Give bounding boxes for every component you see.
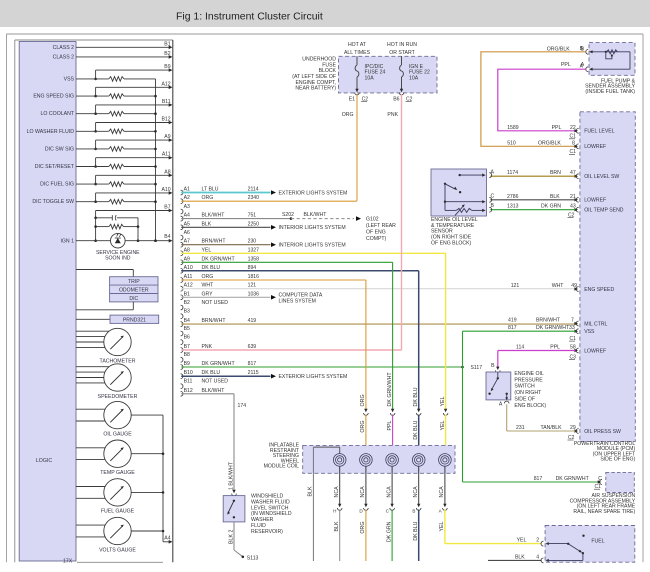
svg-text:A7: A7: [184, 239, 190, 245]
svg-text:7: 7: [571, 318, 574, 324]
svg-text:17X: 17X: [63, 558, 73, 564]
svg-text:ORG: ORG: [342, 112, 354, 118]
svg-text:DIC SW SIG: DIC SW SIG: [45, 146, 74, 152]
svg-text:DIC TOGGLE SW: DIC TOGGLE SW: [32, 199, 74, 205]
svg-text:NCA: NCA: [360, 486, 366, 498]
svg-text:PRESSURE: PRESSURE: [514, 377, 543, 383]
svg-text:NEAR BATTERY): NEAR BATTERY): [295, 86, 336, 92]
svg-text:SIDE OF ENG): SIDE OF ENG): [600, 457, 635, 463]
svg-text:OF ENG: OF ENG: [366, 229, 386, 235]
svg-text:DIC SET/RESET: DIC SET/RESET: [35, 164, 75, 170]
svg-text:DK BLU: DK BLU: [202, 265, 221, 271]
svg-text:A8: A8: [184, 247, 190, 253]
svg-text:1 BLK/WHT: 1 BLK/WHT: [229, 461, 235, 490]
svg-text:BLK 2: BLK 2: [229, 530, 235, 544]
svg-text:DK GRN/WHT: DK GRN/WHT: [536, 325, 570, 331]
svg-text:BLK/WHT: BLK/WHT: [202, 213, 226, 219]
svg-text:Fig 1: Instrument Cluster Circ: Fig 1: Instrument Cluster Circuit: [176, 12, 323, 23]
svg-text:BLK/WHT: BLK/WHT: [202, 388, 226, 394]
svg-text:PRND321: PRND321: [123, 318, 146, 324]
svg-text:PNK: PNK: [202, 344, 213, 350]
svg-text:B10: B10: [184, 370, 193, 376]
svg-text:817: 817: [534, 476, 543, 482]
svg-text:BRN/WHT: BRN/WHT: [536, 318, 561, 324]
svg-text:TAN/BLK: TAN/BLK: [541, 425, 563, 431]
svg-text:YEL: YEL: [440, 396, 446, 406]
svg-text:B2: B2: [184, 300, 190, 306]
svg-text:1313: 1313: [507, 204, 519, 210]
svg-text:BRN/WHT: BRN/WHT: [202, 239, 227, 245]
svg-text:OF ENG BLOCK): OF ENG BLOCK): [431, 240, 472, 246]
svg-text:2250: 2250: [248, 221, 260, 227]
svg-text:114: 114: [516, 345, 524, 351]
svg-text:DK GRN: DK GRN: [541, 204, 561, 210]
svg-text:NOT USED: NOT USED: [202, 300, 229, 306]
svg-text:4: 4: [536, 554, 539, 560]
svg-text:B: B: [412, 508, 415, 513]
svg-text:(INSIDE FUEL TANK): (INSIDE FUEL TANK): [585, 89, 635, 95]
svg-text:ORG: ORG: [202, 195, 214, 201]
svg-text:PPL: PPL: [552, 125, 562, 131]
svg-text:VOLTS GAUGE: VOLTS GAUGE: [99, 547, 136, 553]
svg-text:DK BLU: DK BLU: [202, 370, 221, 376]
svg-text:DIC: DIC: [129, 296, 138, 302]
svg-text:YEL: YEL: [517, 538, 527, 544]
svg-text:DK BLU: DK BLU: [413, 387, 419, 406]
svg-text:22: 22: [570, 125, 576, 131]
svg-text:B4: B4: [164, 234, 170, 240]
svg-text:BLK: BLK: [515, 554, 525, 560]
svg-text:IGN 1: IGN 1: [60, 239, 74, 245]
svg-text:(LEFT REAR: (LEFT REAR: [366, 223, 396, 229]
svg-text:B8: B8: [184, 352, 190, 358]
svg-text:A6: A6: [184, 230, 190, 236]
svg-text:VSS: VSS: [64, 76, 75, 82]
svg-text:FUEL: FUEL: [591, 539, 604, 545]
svg-text:817: 817: [248, 361, 257, 367]
svg-text:ALL TIMES: ALL TIMES: [344, 50, 371, 56]
svg-text:BLK: BLK: [550, 194, 560, 200]
svg-text:ORG/BLK: ORG/BLK: [538, 140, 561, 146]
svg-text:2115: 2115: [248, 370, 259, 376]
svg-text:ENG SPEED SIG: ENG SPEED SIG: [33, 94, 74, 100]
svg-text:LO WASHER FLUID: LO WASHER FLUID: [27, 129, 75, 135]
svg-text:MIL CTRL: MIL CTRL: [584, 321, 607, 327]
svg-text:BRN/WHT: BRN/WHT: [202, 318, 227, 324]
svg-text:BLK/WHT: BLK/WHT: [304, 212, 328, 218]
svg-text:29: 29: [570, 425, 576, 431]
svg-text:E1: E1: [349, 97, 355, 103]
svg-text:2: 2: [536, 538, 539, 544]
svg-text:751: 751: [248, 213, 257, 219]
svg-text:A11: A11: [184, 274, 193, 280]
svg-text:B: B: [491, 363, 495, 369]
svg-text:LT BLU: LT BLU: [202, 187, 219, 193]
svg-text:8: 8: [572, 140, 575, 146]
svg-text:DK GRN/WHT: DK GRN/WHT: [556, 476, 590, 482]
svg-text:894: 894: [248, 265, 257, 271]
svg-text:B6: B6: [184, 335, 190, 341]
svg-text:NCA: NCA: [413, 486, 419, 498]
svg-text:OIL GAUGE: OIL GAUGE: [103, 431, 132, 437]
svg-text:121: 121: [248, 283, 257, 289]
svg-text:817: 817: [508, 325, 517, 331]
svg-text:SWITCH: SWITCH: [514, 384, 535, 390]
svg-text:SIDE OF: SIDE OF: [514, 397, 535, 403]
svg-text:COMPT): COMPT): [366, 236, 387, 242]
svg-text:S117: S117: [471, 365, 483, 371]
svg-text:1036: 1036: [248, 291, 260, 297]
svg-text:49: 49: [571, 283, 577, 289]
svg-text:NOT USED: NOT USED: [202, 379, 229, 385]
svg-text:B5: B5: [184, 326, 190, 332]
svg-text:RESERVOIR): RESERVOIR): [251, 529, 283, 535]
svg-text:2340: 2340: [248, 195, 260, 201]
svg-text:INTERIOR LIGHTS SYSTEM: INTERIOR LIGHTS SYSTEM: [279, 243, 346, 249]
svg-text:1589: 1589: [507, 125, 519, 131]
svg-text:S113: S113: [247, 555, 259, 561]
svg-text:B11: B11: [184, 379, 193, 385]
svg-text:DK GRN/WHT: DK GRN/WHT: [202, 361, 236, 367]
svg-text:ENG SPEED: ENG SPEED: [584, 287, 614, 293]
svg-text:BRN: BRN: [550, 170, 561, 176]
svg-text:LOWREF: LOWREF: [584, 348, 606, 354]
svg-text:WHT: WHT: [552, 283, 565, 289]
svg-text:A2: A2: [184, 195, 190, 201]
svg-text:ORG: ORG: [360, 394, 366, 406]
svg-text:B12: B12: [184, 388, 193, 394]
svg-text:33: 33: [569, 325, 575, 331]
svg-text:NCA: NCA: [334, 486, 340, 498]
svg-text:47: 47: [570, 170, 576, 176]
svg-text:NCA: NCA: [439, 486, 445, 498]
svg-text:ENGINE OIL: ENGINE OIL: [514, 371, 544, 377]
svg-text:1358: 1358: [248, 256, 260, 262]
svg-text:H: H: [333, 508, 336, 513]
svg-text:B2: B2: [164, 51, 170, 57]
svg-text:PPL: PPL: [561, 62, 571, 68]
svg-text:INTERIOR LIGHTS SYSTEM: INTERIOR LIGHTS SYSTEM: [279, 225, 346, 231]
svg-text:1816: 1816: [248, 274, 260, 280]
svg-text:10A: 10A: [365, 76, 375, 82]
svg-text:CLASS 2: CLASS 2: [53, 55, 74, 61]
svg-text:LO COOLANT: LO COOLANT: [41, 111, 75, 117]
svg-text:ORG: ORG: [360, 421, 366, 433]
svg-text:B1: B1: [184, 291, 190, 297]
svg-text:LOWREF: LOWREF: [584, 198, 606, 204]
svg-text:VSS: VSS: [584, 329, 595, 335]
svg-text:A9: A9: [184, 256, 190, 262]
svg-text:1327: 1327: [248, 247, 260, 253]
svg-text:B3: B3: [184, 309, 190, 315]
svg-text:YEL: YEL: [440, 420, 446, 430]
svg-text:OR START: OR START: [389, 50, 415, 56]
svg-text:LOWREF: LOWREF: [584, 144, 606, 150]
svg-text:2114: 2114: [248, 187, 259, 193]
svg-text:174: 174: [238, 403, 247, 409]
svg-text:B1: B1: [164, 41, 170, 47]
svg-text:FUEL LEVEL: FUEL LEVEL: [584, 129, 615, 135]
svg-text:231: 231: [516, 425, 525, 431]
svg-text:WHT: WHT: [202, 283, 215, 289]
svg-text:DK BLU: DK BLU: [413, 420, 419, 439]
svg-text:EXTERIOR LIGHTS SYSTEM: EXTERIOR LIGHTS SYSTEM: [279, 374, 348, 380]
svg-text:PNK: PNK: [387, 112, 398, 118]
svg-text:419: 419: [508, 318, 517, 324]
svg-text:A: A: [499, 402, 503, 408]
svg-text:A: A: [581, 62, 585, 68]
svg-text:(ON RIGHT: (ON RIGHT: [514, 390, 542, 396]
svg-text:ORG: ORG: [360, 522, 366, 534]
svg-text:OIL PRESS SW: OIL PRESS SW: [584, 429, 621, 435]
svg-text:2786: 2786: [507, 194, 519, 200]
svg-text:21: 21: [570, 194, 576, 200]
svg-text:A10: A10: [184, 265, 193, 271]
svg-text:B6: B6: [393, 97, 399, 103]
svg-text:LOGIC: LOGIC: [36, 458, 52, 464]
svg-text:A4: A4: [164, 536, 170, 542]
svg-text:HOT IN RUN: HOT IN RUN: [387, 42, 417, 48]
svg-text:ORG: ORG: [202, 274, 214, 280]
svg-text:YEL: YEL: [202, 247, 212, 253]
svg-text:B4: B4: [184, 318, 190, 324]
svg-text:510: 510: [507, 140, 516, 146]
svg-text:DIC FUEL SIG: DIC FUEL SIG: [40, 182, 74, 188]
svg-text:A12: A12: [184, 283, 193, 289]
svg-text:FUEL GAUGE: FUEL GAUGE: [101, 509, 135, 515]
svg-text:G102: G102: [366, 216, 379, 222]
svg-text:RAIL, NEAR SPARE TIRE): RAIL, NEAR SPARE TIRE): [573, 509, 635, 515]
svg-text:TRIP: TRIP: [128, 279, 140, 285]
svg-text:DK GRN/WHT: DK GRN/WHT: [202, 256, 236, 262]
svg-text:SPEEDOMETER: SPEEDOMETER: [98, 394, 138, 400]
svg-text:DK GRN/WHT: DK GRN/WHT: [387, 372, 393, 407]
svg-text:A1: A1: [184, 187, 190, 193]
svg-text:SOON IND: SOON IND: [105, 256, 131, 262]
svg-text:EXTERIOR LIGHTS SYSTEM: EXTERIOR LIGHTS SYSTEM: [279, 190, 348, 196]
svg-text:BLK: BLK: [334, 521, 340, 531]
svg-text:GRY: GRY: [202, 291, 214, 297]
svg-text:CLASS 2: CLASS 2: [53, 45, 74, 51]
svg-text:230: 230: [248, 239, 257, 245]
svg-text:TEMP GAUGE: TEMP GAUGE: [100, 470, 135, 476]
svg-text:ODOMETER: ODOMETER: [119, 288, 149, 294]
svg-text:639: 639: [248, 344, 257, 350]
svg-text:DK BLU: DK BLU: [413, 521, 419, 540]
svg-text:DK GRN: DK GRN: [386, 521, 392, 542]
svg-text:NCA: NCA: [386, 486, 392, 498]
svg-text:A: A: [491, 170, 495, 176]
svg-text:PPL: PPL: [387, 420, 393, 430]
svg-text:BLK: BLK: [308, 486, 314, 496]
svg-text:OIL TEMP SEND: OIL TEMP SEND: [584, 208, 624, 214]
svg-text:43: 43: [570, 204, 576, 210]
svg-text:A4: A4: [184, 213, 190, 219]
svg-text:S202: S202: [282, 212, 294, 218]
svg-text:YEL: YEL: [439, 521, 445, 531]
svg-text:A5: A5: [184, 221, 190, 227]
svg-text:B9: B9: [184, 361, 190, 367]
svg-text:OIL LEVEL SW: OIL LEVEL SW: [584, 174, 619, 180]
svg-text:1174: 1174: [507, 170, 518, 176]
svg-text:LINES SYSTEM: LINES SYSTEM: [279, 299, 316, 305]
svg-text:A3: A3: [184, 204, 190, 210]
svg-text:PPL: PPL: [550, 345, 560, 351]
svg-text:419: 419: [248, 318, 257, 324]
svg-text:MODULE COIL: MODULE COIL: [264, 464, 300, 470]
svg-text:BLK: BLK: [202, 221, 212, 227]
svg-text:58: 58: [570, 345, 576, 351]
svg-text:B7: B7: [184, 344, 190, 350]
svg-text:ENG BLOCK): ENG BLOCK): [514, 403, 546, 409]
svg-text:10A: 10A: [409, 76, 419, 82]
svg-text:HOT AT: HOT AT: [348, 42, 367, 48]
svg-text:121: 121: [511, 283, 520, 289]
